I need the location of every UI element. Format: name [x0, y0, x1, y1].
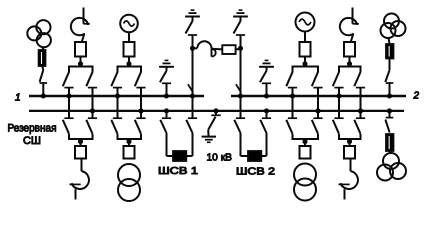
svg-text:Резервная: Резервная: [8, 122, 57, 134]
svg-text:2: 2: [413, 91, 420, 102]
svg-text:ШСВ 1: ШСВ 1: [158, 165, 198, 177]
svg-text:ШСВ 2: ШСВ 2: [236, 166, 275, 178]
svg-text:10 кВ: 10 кВ: [207, 151, 233, 163]
svg-text:СШ: СШ: [23, 135, 41, 147]
svg-text:1: 1: [15, 93, 21, 104]
